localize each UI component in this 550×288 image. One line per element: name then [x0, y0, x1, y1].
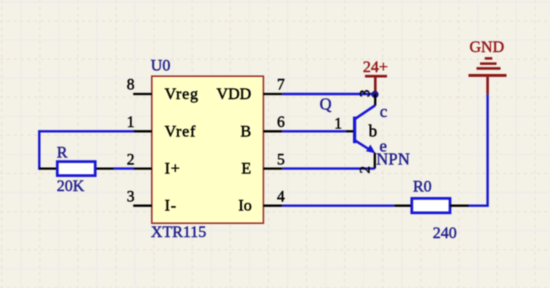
svg-text:240: 240	[433, 225, 457, 242]
svg-text:24+: 24+	[363, 59, 388, 76]
svg-text:I+: I+	[165, 161, 181, 178]
svg-text:1: 1	[127, 114, 135, 131]
svg-text:7: 7	[277, 77, 285, 94]
svg-text:B: B	[241, 123, 252, 140]
svg-text:R0: R0	[413, 178, 432, 195]
svg-text:Vreg: Vreg	[165, 86, 199, 103]
svg-text:b: b	[369, 121, 378, 140]
svg-text:VDD: VDD	[217, 86, 252, 103]
svg-text:Vref: Vref	[165, 123, 197, 140]
svg-text:GND: GND	[469, 39, 504, 56]
svg-text:8: 8	[127, 77, 135, 94]
svg-text:e: e	[379, 136, 387, 155]
svg-text:Q: Q	[320, 94, 332, 113]
svg-text:Io: Io	[238, 198, 251, 215]
svg-text:I-: I-	[165, 198, 177, 215]
svg-text:R: R	[57, 145, 68, 162]
svg-text:3: 3	[358, 90, 374, 98]
svg-text:5: 5	[277, 151, 285, 168]
svg-text:c: c	[380, 102, 388, 121]
svg-text:U0: U0	[151, 58, 171, 75]
svg-text:3: 3	[127, 188, 135, 205]
svg-text:XTR115: XTR115	[151, 224, 206, 241]
svg-text:E: E	[241, 161, 251, 178]
svg-text:2: 2	[357, 166, 373, 174]
svg-text:2: 2	[127, 151, 135, 168]
svg-text:1: 1	[334, 116, 342, 133]
svg-text:6: 6	[277, 114, 285, 131]
svg-text:20K: 20K	[57, 178, 85, 195]
svg-text:4: 4	[277, 188, 285, 205]
